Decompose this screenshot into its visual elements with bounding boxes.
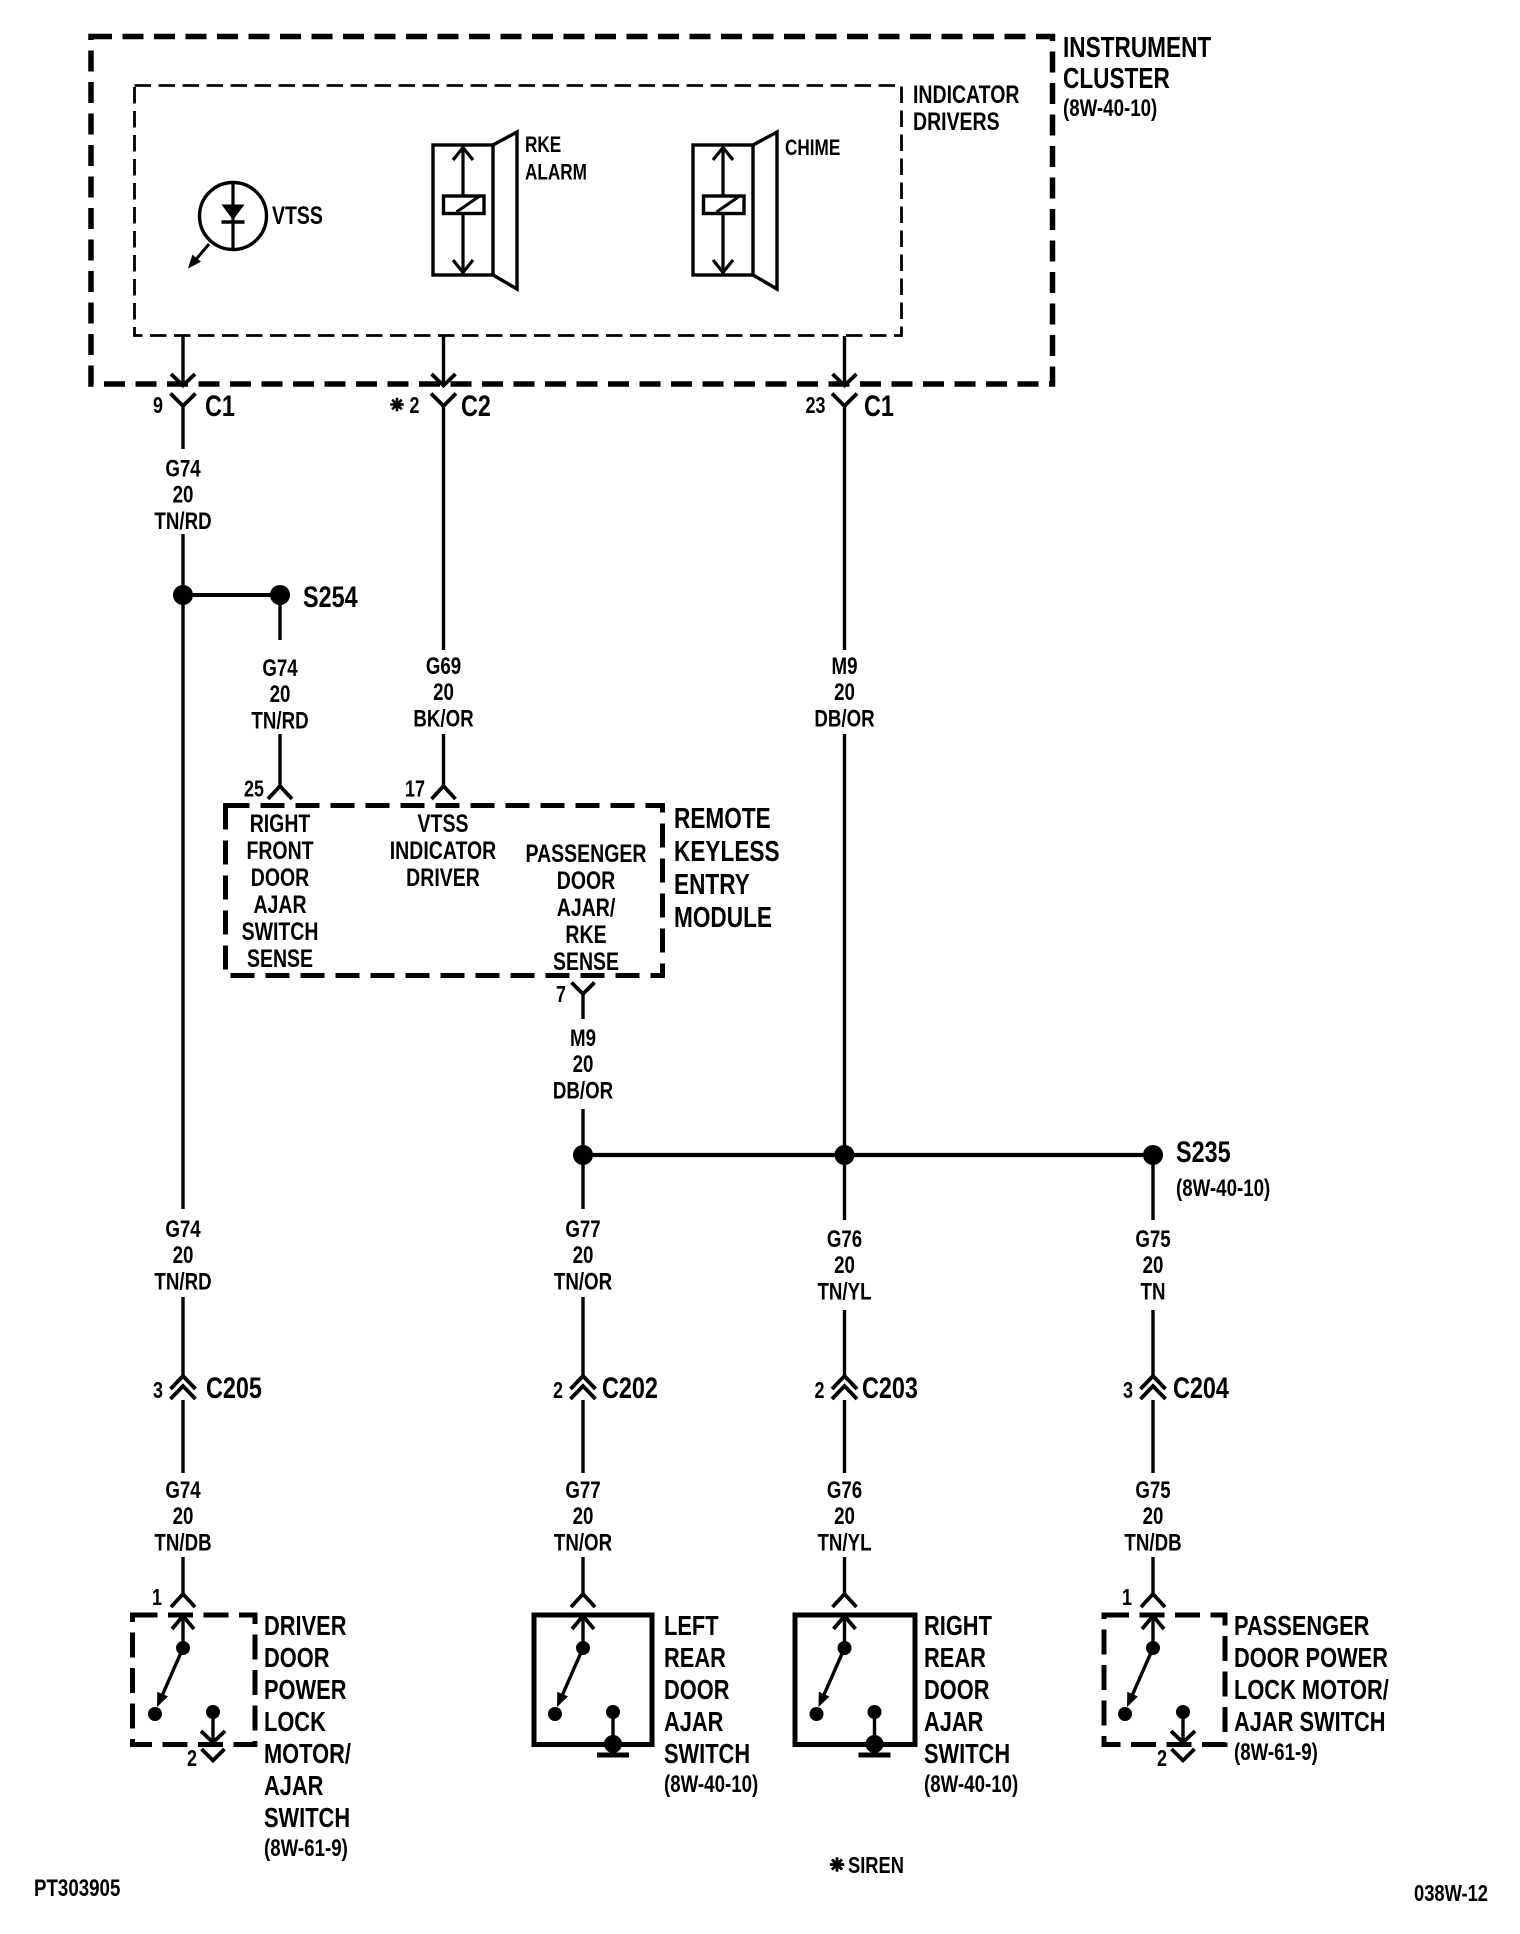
svg-text:20: 20 — [173, 1503, 194, 1530]
svg-text:DOOR: DOOR — [557, 867, 615, 895]
svg-text:2: 2 — [187, 1746, 197, 1772]
svg-text:TN/RD: TN/RD — [154, 1268, 211, 1295]
svg-text:20: 20 — [173, 482, 194, 509]
svg-text:DOOR: DOOR — [924, 1674, 989, 1705]
svg-text:2: 2 — [553, 1378, 563, 1404]
svg-text:G74: G74 — [262, 655, 297, 682]
svg-text:SENSE: SENSE — [247, 945, 313, 973]
svg-text:G74: G74 — [165, 1216, 200, 1243]
svg-text:20: 20 — [270, 681, 291, 708]
svg-text:DOOR: DOOR — [664, 1674, 729, 1705]
svg-text:C1: C1 — [205, 389, 235, 422]
svg-text:FRONT: FRONT — [246, 837, 313, 865]
svg-text:C202: C202 — [602, 1371, 658, 1404]
svg-text:BK/OR: BK/OR — [413, 705, 474, 732]
svg-text:2: 2 — [1157, 1746, 1167, 1772]
svg-text:REAR: REAR — [664, 1642, 726, 1673]
svg-text:C204: C204 — [1173, 1371, 1229, 1404]
svg-text:SENSE: SENSE — [553, 948, 619, 976]
svg-text:1: 1 — [1122, 1585, 1132, 1611]
svg-text:(8W-40-10): (8W-40-10) — [924, 1771, 1018, 1798]
svg-text:C1: C1 — [864, 389, 894, 422]
svg-text:20: 20 — [834, 1252, 855, 1279]
svg-text:ALARM: ALARM — [525, 161, 587, 186]
svg-text:20: 20 — [1143, 1252, 1164, 1279]
svg-text:17: 17 — [405, 776, 425, 802]
svg-text:20: 20 — [573, 1051, 594, 1078]
svg-text:AJAR: AJAR — [253, 891, 306, 919]
svg-text:DRIVER: DRIVER — [264, 1610, 346, 1641]
svg-text:C2: C2 — [461, 389, 491, 422]
svg-text:CHIME: CHIME — [785, 136, 840, 161]
svg-text:RIGHT: RIGHT — [924, 1610, 992, 1641]
svg-text:C203: C203 — [862, 1371, 918, 1404]
svg-text:ENTRY: ENTRY — [674, 867, 750, 900]
svg-text:G74: G74 — [165, 455, 200, 482]
svg-text:20: 20 — [573, 1503, 594, 1530]
svg-text:DB/OR: DB/OR — [814, 705, 875, 732]
svg-text:DRIVERS: DRIVERS — [913, 108, 1000, 136]
svg-text:G75: G75 — [1135, 1477, 1170, 1504]
svg-text:(8W-61-9): (8W-61-9) — [264, 1835, 348, 1862]
svg-text:PASSENGER: PASSENGER — [526, 840, 647, 868]
svg-text:VTSS: VTSS — [418, 810, 469, 838]
svg-text:(8W-40-10): (8W-40-10) — [664, 1771, 758, 1798]
svg-text:KEYLESS: KEYLESS — [674, 834, 780, 867]
svg-text:RIGHT: RIGHT — [250, 810, 311, 838]
svg-text:AJAR: AJAR — [264, 1770, 323, 1801]
svg-text:(8W-40-10): (8W-40-10) — [1063, 95, 1157, 122]
svg-text:20: 20 — [433, 679, 454, 706]
svg-text:G76: G76 — [827, 1226, 862, 1253]
svg-text:20: 20 — [573, 1242, 594, 1269]
svg-text:M9: M9 — [832, 653, 858, 680]
svg-text:7: 7 — [556, 982, 566, 1008]
svg-text:TN/YL: TN/YL — [817, 1278, 871, 1305]
svg-text:REMOTE: REMOTE — [674, 801, 771, 834]
svg-text:AJAR: AJAR — [664, 1706, 723, 1737]
svg-text:C205: C205 — [206, 1371, 262, 1404]
svg-text:20: 20 — [173, 1242, 194, 1269]
svg-text:MOTOR/: MOTOR/ — [264, 1738, 351, 1769]
svg-text:AJAR SWITCH: AJAR SWITCH — [1234, 1706, 1386, 1737]
svg-text:M9: M9 — [570, 1025, 596, 1052]
svg-text:TN/OR: TN/OR — [554, 1529, 613, 1556]
svg-text:23: 23 — [806, 393, 826, 419]
svg-text:INDICATOR: INDICATOR — [913, 81, 1019, 109]
svg-text:3: 3 — [1123, 1378, 1133, 1404]
svg-text:AJAR/: AJAR/ — [557, 894, 615, 922]
svg-text:20: 20 — [834, 1503, 855, 1530]
svg-text:TN: TN — [1141, 1278, 1166, 1305]
svg-text:PASSENGER: PASSENGER — [1234, 1610, 1369, 1641]
svg-text:2: 2 — [815, 1378, 825, 1404]
svg-text:LOCK MOTOR/: LOCK MOTOR/ — [1234, 1674, 1389, 1705]
svg-text:(8W-61-9): (8W-61-9) — [1234, 1739, 1318, 1766]
svg-text:INSTRUMENT: INSTRUMENT — [1063, 30, 1211, 63]
svg-text:LEFT: LEFT — [664, 1610, 719, 1641]
svg-text:G75: G75 — [1135, 1226, 1170, 1253]
svg-text:TN/RD: TN/RD — [251, 707, 308, 734]
svg-text:SWITCH: SWITCH — [242, 918, 319, 946]
svg-text:(8W-40-10): (8W-40-10) — [1176, 1175, 1270, 1202]
svg-text:CLUSTER: CLUSTER — [1063, 61, 1170, 94]
svg-text:TN/DB: TN/DB — [1124, 1529, 1181, 1556]
svg-text:25: 25 — [244, 776, 264, 802]
svg-text:1: 1 — [152, 1585, 162, 1611]
svg-text:G74: G74 — [165, 1477, 200, 1504]
svg-text:TN/RD: TN/RD — [154, 508, 211, 535]
svg-text:POWER: POWER — [264, 1674, 346, 1705]
svg-text:S235: S235 — [1176, 1135, 1231, 1168]
svg-text:TN/DB: TN/DB — [154, 1529, 211, 1556]
svg-text:S254: S254 — [303, 580, 358, 613]
svg-text:20: 20 — [1143, 1503, 1164, 1530]
svg-text:DOOR: DOOR — [264, 1642, 329, 1673]
svg-text:AJAR: AJAR — [924, 1706, 983, 1737]
svg-text:SWITCH: SWITCH — [264, 1802, 350, 1833]
svg-text:SWITCH: SWITCH — [924, 1738, 1010, 1769]
svg-text:RKE: RKE — [565, 921, 606, 949]
svg-text:3: 3 — [153, 1378, 163, 1404]
svg-text:SWITCH: SWITCH — [664, 1738, 750, 1769]
svg-text:VTSS: VTSS — [272, 202, 323, 230]
svg-text:LOCK: LOCK — [264, 1706, 326, 1737]
svg-text:9: 9 — [153, 393, 163, 419]
svg-text:DOOR POWER: DOOR POWER — [1234, 1642, 1388, 1673]
svg-text:20: 20 — [834, 679, 855, 706]
svg-text:DB/OR: DB/OR — [553, 1077, 614, 1104]
svg-text:G77: G77 — [565, 1477, 600, 1504]
svg-text:TN/YL: TN/YL — [817, 1529, 871, 1556]
svg-text:PT303905: PT303905 — [34, 1875, 120, 1902]
svg-text:G69: G69 — [426, 653, 461, 680]
svg-text:SIREN: SIREN — [848, 1853, 904, 1879]
svg-text:RKE: RKE — [525, 133, 561, 158]
svg-text:DOOR: DOOR — [251, 864, 309, 892]
svg-text:G76: G76 — [827, 1477, 862, 1504]
svg-text:MODULE: MODULE — [674, 900, 772, 933]
svg-text:2: 2 — [410, 393, 420, 419]
svg-text:DRIVER: DRIVER — [406, 864, 480, 892]
svg-text:038W-12: 038W-12 — [1414, 1881, 1488, 1907]
svg-text:G77: G77 — [565, 1216, 600, 1243]
svg-text:INDICATOR: INDICATOR — [390, 837, 496, 865]
svg-text:REAR: REAR — [924, 1642, 986, 1673]
svg-text:TN/OR: TN/OR — [554, 1268, 613, 1295]
